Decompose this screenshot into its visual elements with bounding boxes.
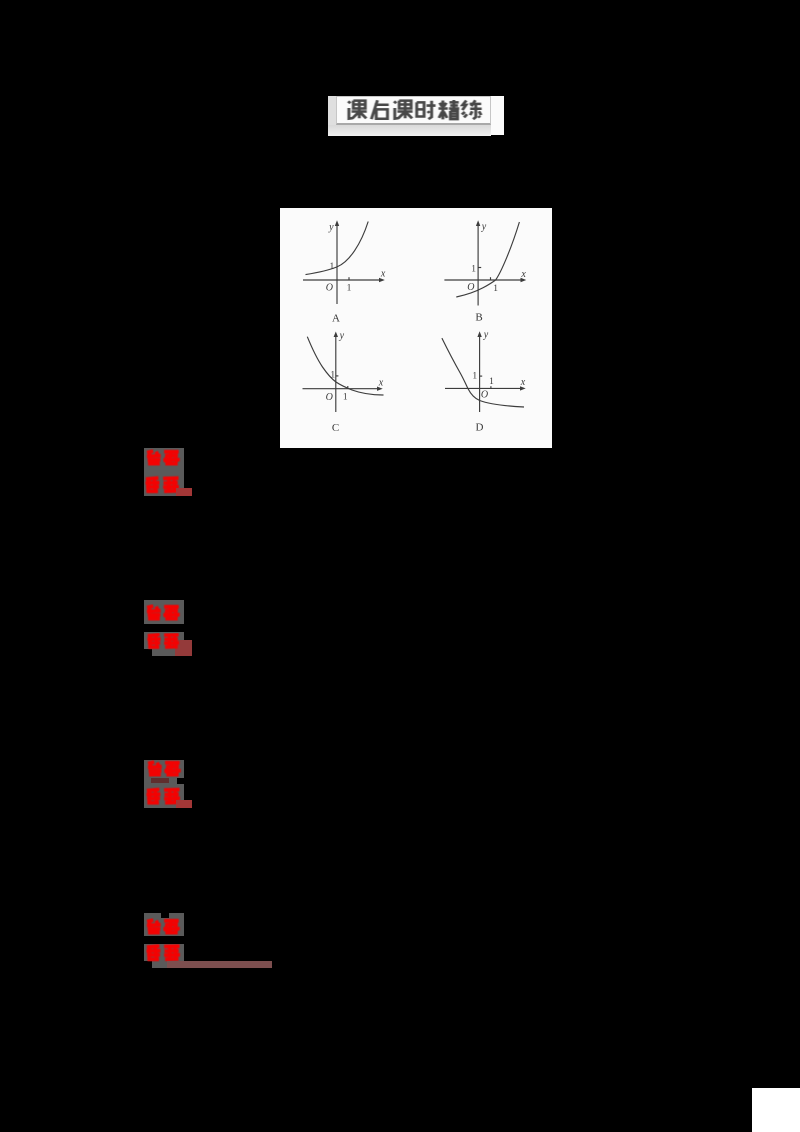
- glyph 精: [438, 100, 459, 119]
- title banner white box: [336, 96, 491, 125]
- graph D x-axis: [445, 387, 522, 389]
- svg-text:A: A: [332, 313, 340, 325]
- answer group 4 highlight box (解析): [144, 944, 184, 962]
- graph C y-axis: [335, 335, 337, 412]
- glyph 课: [348, 101, 367, 119]
- glyph 课 (2): [394, 101, 413, 119]
- answer group 3 red word 答案: [146, 760, 183, 778]
- graph C tick x=1: [347, 386, 349, 389]
- answer group 3 dark red underline: [176, 800, 192, 808]
- graph B tick x=1: [490, 277, 492, 279]
- graph B tick y=1: [478, 267, 481, 269]
- answer group 3 notch: [177, 778, 184, 785]
- answer group 1 highlight box: [144, 448, 184, 497]
- svg-text:O: O: [467, 282, 474, 293]
- svg-text:O: O: [326, 283, 333, 294]
- graph D curve: [442, 338, 524, 407]
- graph C tick y=1: [336, 375, 339, 377]
- answer group 4 red word 答案: [145, 918, 182, 936]
- svg-text:y: y: [339, 331, 345, 342]
- answer group 1 dark red underline: [176, 488, 192, 496]
- answer group 4 highlight box (答案): [144, 913, 184, 936]
- title banner right highlight: [490, 96, 504, 135]
- graph C curve: [307, 337, 383, 395]
- graph D tick y=1: [480, 375, 483, 377]
- svg-text:y: y: [328, 222, 334, 233]
- svg-text:O: O: [481, 390, 488, 401]
- svg-text:D: D: [476, 422, 484, 434]
- svg-text:y: y: [483, 330, 489, 341]
- svg-text:1: 1: [472, 371, 477, 381]
- graph D tick x=1: [490, 386, 492, 388]
- svg-text:1: 1: [330, 370, 335, 380]
- title banner left shade: [328, 96, 337, 135]
- answer group 2 dark red block: [175, 640, 192, 656]
- svg-text:x: x: [378, 377, 384, 388]
- graph B x-axis: [444, 279, 522, 281]
- graph A x-axis: [303, 279, 381, 281]
- title text 课后课时精练 (drawn strokes): [346, 99, 486, 123]
- glyph 时: [417, 101, 436, 119]
- shared red word glyph defs: [0, 0, 2, 2]
- title banner bottom shadow: [328, 125, 491, 136]
- svg-text:O: O: [326, 392, 333, 403]
- svg-text:1: 1: [347, 283, 352, 293]
- svg-text:B: B: [475, 312, 482, 324]
- svg-text:1: 1: [493, 284, 498, 294]
- svg-text:1: 1: [471, 264, 476, 274]
- figure panel (white): [280, 208, 552, 448]
- svg-text:C: C: [332, 422, 339, 434]
- answer group 1 red word 答案: [145, 449, 182, 467]
- answer group 2 highlight box (答案): [144, 600, 184, 624]
- graph C x-axis: [303, 388, 380, 390]
- bottom-right white corner: [752, 1088, 800, 1132]
- answer group 2 red word 解析: [145, 633, 182, 650]
- answer group 3 red word 解析: [145, 787, 182, 806]
- answer group 2 highlight box (解析): [144, 632, 184, 649]
- answer group 1 red word 解析: [144, 475, 181, 495]
- graph A tick x=1: [348, 277, 350, 280]
- svg-text:y: y: [481, 222, 487, 233]
- svg-text:x: x: [380, 268, 386, 279]
- graph B curve: [456, 222, 519, 297]
- graph B y-axis: [477, 224, 479, 306]
- answer group 4 notch: [161, 913, 169, 919]
- answer group 3 highlight box: [144, 760, 184, 809]
- svg-text:1: 1: [489, 377, 494, 387]
- svg-text:1: 1: [343, 392, 348, 402]
- svg-text:1: 1: [330, 262, 335, 272]
- answer group 2 red word 答案: [145, 604, 182, 622]
- graph D y-axis: [479, 335, 481, 412]
- glyph 练: [462, 100, 482, 119]
- glyph 后: [371, 100, 388, 119]
- svg-text:x: x: [520, 269, 526, 280]
- graph A y-axis: [336, 224, 338, 304]
- answer group 4 red word 解析: [145, 944, 182, 962]
- svg-text:x: x: [520, 377, 526, 388]
- answer group 3 maroon smudge: [151, 778, 169, 784]
- answer group 4 long brown rule: [167, 961, 272, 968]
- graph A curve: [306, 222, 369, 275]
